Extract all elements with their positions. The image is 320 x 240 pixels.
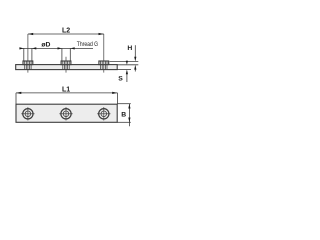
centerline hole 2 front [65,57,67,73]
hidden hole lines boss 1 [25,61,31,69]
dimension H [134,45,136,71]
dimension B [117,104,131,127]
svg-text:øD: øD [41,41,50,48]
svg-text:L1: L1 [62,86,70,93]
hole 1 plan outer circle [21,107,34,120]
dimension line oD / thread [20,48,93,61]
oD extension lines [23,48,25,61]
oD arrows [19,47,74,49]
svg-text:B: B [121,111,126,118]
dimension L2 line [28,33,104,35]
centerline hole 1 front [27,34,29,73]
centerline hole 3 front [103,34,105,73]
extension line bar top right [117,64,138,66]
svg-text:H: H [127,45,132,52]
boss 3 (right, front view) [99,61,109,65]
plan view body [16,104,117,122]
hole 3 plan outer circle [97,107,110,120]
extension line bar bottom right [117,69,131,71]
boss 1 (left, front view) [23,61,33,65]
extension line boss top right [110,61,139,63]
boss 2 (center, front view) [61,61,71,65]
dimension L1 [16,93,118,104]
hidden hole lines boss 3 [101,61,107,69]
thread extension lines [61,48,63,61]
hole 2 plan outer circle [59,107,72,120]
hidden hole lines boss 2 [63,61,69,69]
dimension L2 arrows [28,33,104,35]
svg-text:Thread G: Thread G [77,41,98,48]
svg-text:S: S [118,76,123,83]
dimension S [126,61,128,82]
bar front view body [16,65,118,70]
svg-text:L2: L2 [62,27,70,34]
